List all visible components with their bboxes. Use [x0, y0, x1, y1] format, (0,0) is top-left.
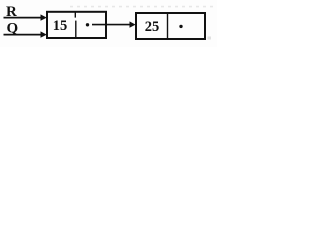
node 1 divider (lower segment) — [75, 21, 77, 38]
arrow from Q to node 1 — [4, 31, 47, 37]
node 1 divider (upper segment) — [74, 12, 76, 18]
node 2 box — [136, 13, 205, 39]
arrow from R to node 1 — [4, 14, 47, 20]
node 1 link dot — [86, 23, 89, 26]
svg-text:25: 25 — [145, 19, 160, 35]
svg-text:15: 15 — [53, 18, 68, 34]
faint scan bleed-through row — [70, 6, 215, 8]
scan speck near node 2 bottom-right corner — [208, 37, 212, 40]
node 2 divider — [167, 13, 169, 39]
arrow from node 1 to node 2 — [92, 21, 136, 27]
node 2 link dot — [179, 25, 182, 28]
node 1 box — [47, 12, 106, 38]
